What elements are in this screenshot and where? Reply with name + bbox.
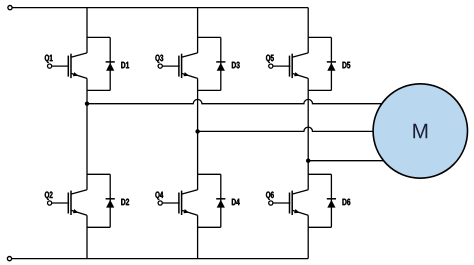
transistor Q6 (IGBT) [269,190,309,216]
wire: DC- rail [12,258,308,260]
wire: phase C to motor [308,160,386,162]
label D1 [121,62,129,68]
wire: leg 2 Q4 emitter to DC- rail [197,215,199,258]
wire: leg 3 top rail to Q5 collector [307,8,309,53]
label Q6 [266,192,274,200]
label Q4 [155,192,163,200]
diode D4 (freewheeling, antiparallel) [198,174,226,227]
transistor Q2 (IGBT) [48,190,88,216]
wire: leg 3 Q6 emitter to DC- rail [307,215,309,258]
label Q1 [45,55,53,63]
wire: leg 1 midpoint (Q1 emitter to Q2 collector) [86,78,88,189]
node B (phase B junction dot on leg 2) [195,129,199,133]
diode D3 (freewheeling, antiparallel) [198,37,226,90]
label D2 [121,199,129,205]
transistor Q4 (IGBT) [158,190,198,216]
label D6 [343,199,351,206]
wire: leg 1 Q2 emitter to DC- rail [86,215,88,258]
wire: leg 3 midpoint (Q5 emitter to Q6 collector) [307,78,309,189]
node A (phase A junction dot on leg 1) [85,102,89,106]
label D5 [343,62,351,68]
transistor Q1 (IGBT) [48,53,88,79]
diode D2 (freewheeling, antiparallel) [87,174,115,227]
DC- terminal [7,257,11,261]
wire: phase A to motor (hops over legs 2 and 3) [87,99,384,103]
label Q5 [266,55,274,63]
diode D6 (freewheeling, antiparallel) [308,174,336,227]
diode D1 (freewheeling, antiparallel) [87,37,115,90]
label Q2 [45,192,53,200]
wire: DC+ rail [12,7,308,9]
wire: leg 2 top rail to Q3 collector [197,8,199,53]
label D4 [232,199,240,205]
wire: phase B to motor (hop over leg 3) [198,127,376,131]
transistor Q3 (IGBT) [158,53,198,79]
node C (phase C junction dot on leg 3) [306,159,310,163]
transistor Q5 (IGBT) [269,53,309,79]
diode D5 (freewheeling, antiparallel) [308,37,336,90]
DC+ terminal [8,6,12,10]
wire: leg 1 top rail to Q1 collector [86,8,88,53]
wire: leg 2 midpoint (Q3 emitter to Q4 collector) [197,78,199,189]
label Q3 [155,55,163,63]
motor M [373,84,467,178]
label D3 [232,62,240,69]
